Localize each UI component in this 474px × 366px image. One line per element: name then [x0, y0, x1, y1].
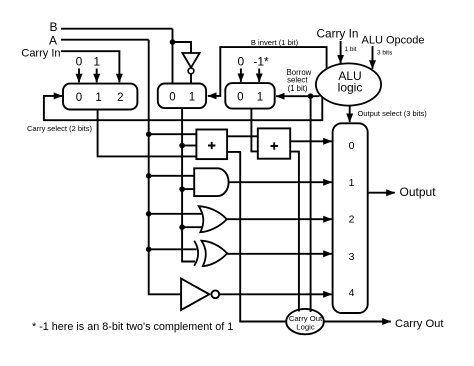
wire mux U5 output to adder U8 [251, 109, 257, 152]
node borrow select junction [308, 93, 314, 99]
svg-text:0: 0 [238, 55, 245, 69]
adder U8 [258, 128, 290, 158]
wire NOT output to mux U7 pin 4 [219, 293, 332, 295]
wire adder U4 sum to adder U8 [227, 135, 258, 137]
wire arrow 0 into mux U5 [240, 69, 242, 82]
wire arrow -1 into mux U5 [258, 69, 260, 82]
svg-text:Output select (3 bits): Output select (3 bits) [358, 109, 428, 118]
wire XOR output to mux U7 pin 3 [227, 253, 332, 255]
node U2 bus to AND gate [179, 186, 185, 192]
node A to adder U4 [146, 131, 152, 137]
wire mux U7 to Output [368, 192, 395, 194]
wire A horizontal [61, 39, 149, 41]
svg-text:2: 2 [349, 214, 355, 226]
wire inverter U3 output to mux U2 [190, 74, 192, 84]
XOR gate G3 arc [194, 241, 198, 266]
wire AND output to mux U7 pin 1 [229, 181, 332, 183]
svg-text:2: 2 [117, 92, 123, 104]
svg-text:logic: logic [338, 80, 363, 94]
svg-text:Carry Out: Carry Out [395, 318, 444, 330]
node B branch junction [170, 39, 176, 45]
wire arrow select 1 into mux U1 [96, 69, 98, 83]
svg-text:Carry In: Carry In [317, 26, 359, 40]
svg-text:B: B [49, 20, 57, 34]
node A to AND gate [146, 173, 152, 179]
wire carry select feedback from ALU logic to mux U1 [44, 96, 322, 120]
svg-text:Carry In: Carry In [21, 48, 60, 60]
NOT gate G4 bubble [211, 290, 219, 298]
wire adder U8 carry to carry out logic [290, 152, 299, 312]
op-amp U6 ALU logic oval [316, 63, 381, 105]
svg-text:B invert (1 bit): B invert (1 bit) [251, 38, 299, 47]
wire U2 bus to AND gate [182, 188, 194, 190]
wire B horizontal [61, 28, 173, 30]
wire borrow select from ALU logic to mux U5 [276, 95, 319, 97]
NOT gate G4 [181, 279, 209, 310]
wire output select arrow into mux U7 [349, 106, 351, 123]
node A to XOR gate [146, 247, 152, 253]
svg-text:0: 0 [349, 140, 355, 152]
svg-text:-1*: -1* [253, 55, 269, 69]
wire A to adder U4 [149, 133, 197, 135]
inverter U3 for B [182, 53, 199, 68]
svg-text:0: 0 [237, 92, 243, 104]
svg-text:4: 4 [349, 287, 355, 299]
node A to OR gate [146, 211, 152, 217]
wire U2 bus to OR gate [182, 226, 202, 228]
node U2 bus to adder U4 [179, 143, 185, 149]
XOR gate G3 body [202, 241, 228, 266]
wire Carry In to mux U1 input 2 [61, 51, 119, 82]
svg-text:1: 1 [257, 92, 263, 104]
wire U2 bus to adder U4 [182, 145, 196, 147]
wire ALU Opcode arrow into ALU logic [372, 46, 374, 69]
svg-text:1 bit: 1 bit [345, 46, 357, 53]
label U4 plus [208, 142, 215, 149]
svg-text:0: 0 [76, 55, 83, 69]
wire carry out logic to Carry Out [324, 321, 391, 323]
AND gate G1 [194, 168, 228, 196]
mux U5 zero or minus one [225, 83, 274, 109]
svg-text:Logic: Logic [296, 322, 315, 331]
svg-text:A: A [49, 33, 57, 47]
OR gate G2 [199, 206, 227, 232]
wire arrow select 0 into mux U1 [78, 69, 80, 83]
wire B vertical to mux U2 [172, 29, 174, 84]
wire mux U1 output to adder U4 carry input [98, 110, 197, 157]
wire A vertical bus [149, 40, 181, 295]
wire B invert select from ALU logic to mux U2 [208, 47, 327, 96]
wire mux U2 output bus [182, 108, 195, 261]
svg-text:Carry select (2 bits): Carry select (2 bits) [27, 124, 93, 133]
svg-text:0: 0 [169, 91, 175, 103]
mux U2 B invert select [158, 84, 206, 109]
svg-text:3 bits: 3 bits [377, 50, 392, 57]
label U8 plus [271, 142, 278, 149]
wire Carry In arrow into ALU logic [340, 41, 342, 63]
wire adder U8 sum to mux U7 pin 0 [290, 140, 332, 142]
wire A to AND gate [149, 175, 195, 177]
mux U1 carry select [63, 84, 137, 110]
svg-text:(1 bit): (1 bit) [288, 84, 308, 93]
svg-text:1: 1 [349, 177, 355, 189]
wire A to OR gate [149, 213, 202, 215]
svg-text:Output: Output [400, 185, 437, 199]
svg-text:ALU Opcode: ALU Opcode [362, 34, 425, 46]
svg-text:1: 1 [93, 55, 100, 69]
svg-text:1: 1 [189, 91, 195, 103]
inverter U3 bubble [188, 68, 194, 74]
wire OR output to mux U7 pin 2 [227, 218, 332, 220]
svg-text:1: 1 [95, 92, 101, 104]
wire borrow select down to carry out logic [310, 96, 312, 312]
node U2 bus to OR gate [179, 224, 185, 230]
mux U7 output select [333, 123, 368, 313]
svg-text:3: 3 [349, 251, 355, 263]
wire A to XOR gate [149, 248, 197, 250]
wire B to inverter [173, 42, 192, 53]
wire adder U4 carry to carry out logic [227, 152, 286, 322]
adder U4 [196, 130, 227, 160]
svg-text:0: 0 [76, 92, 82, 104]
svg-text:* -1 here is an 8-bit two's co: * -1 here is an 8-bit two's complement o… [32, 321, 233, 333]
op-amp U9 carry out logic oval [286, 309, 324, 334]
